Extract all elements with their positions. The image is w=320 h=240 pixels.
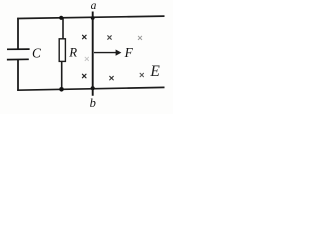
svg-text:a: a [91, 0, 97, 12]
svg-text:F: F [124, 45, 134, 60]
svg-text:b: b [90, 96, 96, 110]
svg-text:C: C [32, 45, 41, 60]
svg-text:E: E [149, 63, 160, 80]
svg-text:R: R [68, 46, 77, 60]
